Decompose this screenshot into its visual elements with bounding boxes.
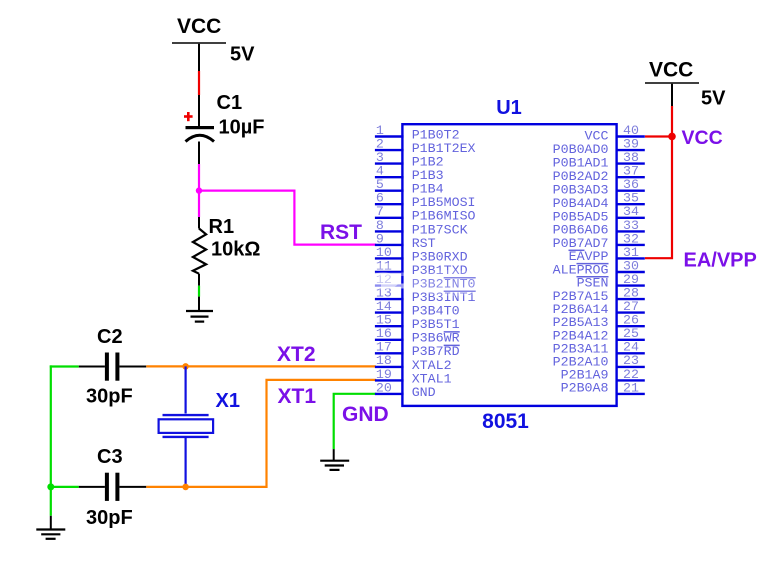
U1 pin 40 (VCC) <box>585 123 645 144</box>
power symbol VCC (top-left) bar <box>172 42 226 44</box>
wire C1 bottom black <box>198 142 200 165</box>
U1 pin 13 (P3B3INT1) <box>375 286 476 306</box>
wire GND pin to ground (green) <box>334 394 377 449</box>
U1 pin 11 (P3B1TXD) <box>375 258 468 278</box>
U1 pin 29 (PSEN) <box>577 272 645 291</box>
svg-text:RST: RST <box>320 221 362 244</box>
label XT1 net <box>278 385 317 408</box>
U1 pin 3 (P1B2) <box>375 150 444 170</box>
wire VCC rail (red) <box>645 106 672 258</box>
U1 pin 15 (P3B5T1) <box>375 313 460 333</box>
label VCC net <box>682 127 723 149</box>
label 5V (top-left) <box>230 44 255 66</box>
wire red end to C1 top <box>198 95 200 127</box>
svg-text:GND: GND <box>412 385 436 400</box>
U1 pin 14 (P3B4T0) <box>375 299 460 319</box>
U1 pin 1 (P1B0T2) <box>375 123 460 143</box>
U1 pin 19 (XTAL1) <box>375 367 452 387</box>
U1 pin 16 (P3B6WR) <box>375 326 460 346</box>
U1 pin 8 (P1B7SCK) <box>375 218 468 238</box>
U1 pin 39 (P0B0AD0) <box>553 137 645 158</box>
wire left ground rail (green) <box>50 365 52 515</box>
svg-text:5V: 5V <box>230 44 255 66</box>
U1 pin 30 (ALEPROG) <box>553 258 645 277</box>
wire pin40 to rail (red) <box>645 135 672 137</box>
label R1 <box>209 216 235 238</box>
label X1 <box>216 390 240 412</box>
U1 pin 25 (P2B4A12) <box>553 326 645 343</box>
wire C2 left lead <box>79 366 105 368</box>
wire C3 to XTAL1 (orange) <box>146 380 376 487</box>
capacitor C3 plates <box>105 473 120 501</box>
svg-text:C1: C1 <box>217 92 243 114</box>
U1 pin 26 (P2B5A13) <box>553 313 645 331</box>
svg-text:5V: 5V <box>701 88 726 110</box>
svg-text:XT1: XT1 <box>278 385 317 408</box>
ground symbol under R1 <box>186 311 213 322</box>
power symbol VCC (top-right) bar <box>645 82 699 84</box>
wire node to RST pin (magenta) <box>199 191 376 245</box>
wire R1 top lead <box>198 217 200 229</box>
U1 pin 6 (P1B5MOSI) <box>375 191 476 211</box>
U1 pin 4 (P1B3) <box>375 164 444 184</box>
label GND net <box>342 403 389 426</box>
U1 pin 5 (P1B4) <box>375 177 444 197</box>
svg-text:C3: C3 <box>97 446 123 468</box>
svg-text:R1: R1 <box>209 216 235 238</box>
junction dot VCC node <box>668 133 676 141</box>
ground symbol below GND <box>320 461 349 470</box>
U1 pin 28 (P2B7A15) <box>553 286 645 304</box>
U1 pin 17 (P3B7RD) <box>375 340 460 360</box>
U1 pin 37 (P0B2AD2) <box>553 164 645 185</box>
svg-text:20: 20 <box>376 380 392 395</box>
capacitor C1 curved plate <box>186 135 215 141</box>
wire C1 to node RST (magenta) <box>198 164 200 192</box>
label RST net <box>320 221 362 244</box>
label 5V (top-right) <box>701 88 726 110</box>
wire C2 left (green) <box>50 365 79 367</box>
svg-text:XT2: XT2 <box>277 343 316 366</box>
wire XT2 node to crystal <box>185 366 187 413</box>
label 10uF <box>219 117 265 139</box>
watermark artifact <box>367 263 494 296</box>
U1 pin 27 (P2B6A14) <box>553 299 645 317</box>
svg-text:21: 21 <box>623 380 639 395</box>
wire R1 bottom lead <box>198 274 200 286</box>
svg-text:10kΩ: 10kΩ <box>211 239 260 261</box>
svg-text:EA/VPP: EA/VPP <box>684 250 757 272</box>
U1 pin 24 (P2B3A11) <box>553 340 645 357</box>
junction dot left rail <box>47 483 54 490</box>
wire C2 right lead <box>119 366 146 368</box>
svg-text:GND: GND <box>342 403 389 426</box>
wire VCC to C1 (red) <box>198 71 200 95</box>
label 30pF (C2) <box>86 386 133 408</box>
label U1 <box>496 97 522 119</box>
U1 pin 34 (P0B5AD5) <box>553 204 645 224</box>
IC U1 body <box>402 124 616 406</box>
power symbol VCC (top-left) stem <box>198 44 200 71</box>
wire C3 left lead <box>79 486 105 488</box>
crystal X1 bottom electrode <box>163 436 209 438</box>
ground symbol bottom-left <box>36 530 65 539</box>
svg-text:P2B0A8: P2B0A8 <box>561 380 609 395</box>
wire C3 left (green) <box>50 486 79 488</box>
wire rail to ground symbol <box>50 516 52 530</box>
U1 pin 22 (P2B1A9) <box>561 367 645 383</box>
label XT2 net <box>277 343 316 366</box>
label 8051 <box>482 410 529 433</box>
wire node to R1 (magenta) <box>198 191 200 217</box>
U1 pin 32 (P0B7AD7) <box>553 231 645 251</box>
resistor R1 zigzag <box>193 229 206 274</box>
wire crystal to XT1 node <box>185 437 187 487</box>
U1 pin 18 (XTAL2) <box>375 353 452 373</box>
capacitor C1 plus sign <box>184 112 193 121</box>
wire R1 to ground (green) <box>198 286 200 297</box>
U1 pin 36 (P0B3AD3) <box>553 177 645 197</box>
wire green to ground symbol (GND) <box>333 449 335 461</box>
label C2 <box>97 326 123 348</box>
U1 pin 33 (P0B6AD6) <box>553 218 645 238</box>
svg-text:VCC: VCC <box>649 59 693 82</box>
power symbol VCC (top-right) stem <box>671 84 673 106</box>
U1 pin 12 (P3B2INT0) <box>375 272 476 292</box>
crystal X1 body <box>159 419 214 433</box>
power symbol VCC (top-left) label <box>177 15 221 38</box>
label EA/VPP net <box>684 250 757 272</box>
U1 pin 20 (GND) <box>375 380 436 400</box>
svg-text:30pF: 30pF <box>86 386 133 408</box>
label 30pF (C3) <box>86 507 133 529</box>
svg-text:C2: C2 <box>97 326 123 348</box>
wire C3 right lead <box>119 486 146 488</box>
wire green to ground symbol <box>198 297 200 311</box>
U1 pin 10 (P3B0RXD) <box>375 245 468 264</box>
U1 pin 35 (P0B4AD4) <box>553 191 645 211</box>
svg-text:VCC: VCC <box>682 127 723 149</box>
svg-text:U1: U1 <box>496 97 522 119</box>
U1 pin 21 (P2B0A8) <box>561 380 645 395</box>
capacitor C2 plates <box>105 353 120 381</box>
U1 pin 38 (P0B1AD1) <box>553 150 645 171</box>
wire C2 to XTAL2 (orange) <box>146 365 375 367</box>
power symbol VCC (top-right) label <box>649 59 693 82</box>
capacitor C1 top plate <box>186 126 215 129</box>
label 10kOhm <box>211 239 260 261</box>
junction dot at C1/R1 node <box>196 187 202 193</box>
svg-text:X1: X1 <box>216 390 240 412</box>
U1 pin 31 (EAVPP) <box>569 245 645 264</box>
svg-text:VCC: VCC <box>177 15 221 38</box>
label C1 <box>217 92 243 114</box>
U1 pin 2 (P1B1T2EX) <box>375 137 476 157</box>
crystal X1 top electrode <box>163 414 209 416</box>
svg-text:10µF: 10µF <box>219 117 265 139</box>
U1 pin 23 (P2B2A10) <box>553 353 645 369</box>
svg-text:30pF: 30pF <box>86 507 133 529</box>
junction dot XT2 node <box>182 363 189 370</box>
junction dot XT1 node <box>182 484 189 491</box>
label C3 <box>97 446 123 468</box>
U1 pin 7 (P1B6MISO) <box>375 204 476 224</box>
svg-text:8051: 8051 <box>482 410 529 433</box>
U1 pin 9 (RST) <box>375 231 436 251</box>
